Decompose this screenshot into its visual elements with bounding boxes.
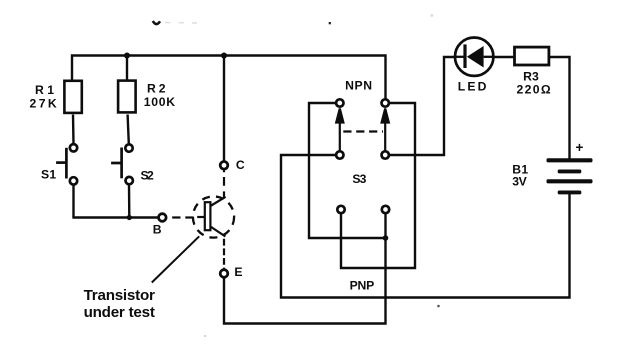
svg-text:220Ω: 220Ω xyxy=(517,83,551,97)
svg-text:PNP: PNP xyxy=(350,279,375,293)
svg-text:+: + xyxy=(576,140,584,155)
svg-text:27K: 27K xyxy=(30,97,57,111)
svg-text:S1: S1 xyxy=(41,168,56,182)
svg-text:Transistor: Transistor xyxy=(84,287,155,304)
svg-text:S2: S2 xyxy=(141,169,155,183)
svg-text:R3: R3 xyxy=(523,69,539,83)
svg-text:B: B xyxy=(153,223,162,237)
svg-text:NPN: NPN xyxy=(345,79,372,93)
svg-text:C: C xyxy=(236,158,245,172)
svg-text:S3: S3 xyxy=(352,172,366,186)
svg-text:LED: LED xyxy=(458,80,487,94)
svg-text:3V: 3V xyxy=(512,174,527,188)
svg-text:under test: under test xyxy=(84,304,155,321)
svg-text:100K: 100K xyxy=(144,95,175,109)
svg-text:E: E xyxy=(234,265,242,279)
